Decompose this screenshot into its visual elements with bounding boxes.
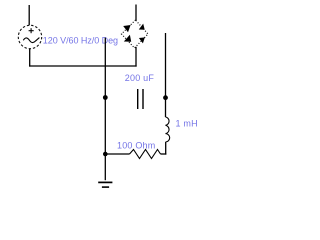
wire: right vertical run upper [165,33,167,117]
svg-text:1 mH: 1 mH [176,119,198,129]
junction node at middle wire and capacitor row [103,95,108,100]
ac voltage source V1 top lead wire [28,5,30,25]
ac voltage source V1 bottom lead wire [29,49,31,67]
svg-text:120 V/60 Hz/0 Deg: 120 V/60 Hz/0 Deg [43,35,118,45]
svg-text:200 uF: 200 uF [125,73,155,83]
inductor L1 coil [166,117,170,142]
capacitor C1 plates [137,89,144,109]
bridge rectifier top lead wire [135,5,137,21]
svg-text:100 Ohm: 100 Ohm [117,141,155,151]
wire: bottom row right segment [161,153,167,155]
wire: middle vertical run [104,38,106,154]
wire: bottom horizontal run from source to bridge [29,65,137,67]
resistor R1 zigzag [130,150,161,159]
bridge rectifier U1 (diamond with four diodes) [122,20,149,48]
wire: bottom row left segment [104,153,130,155]
bridge rectifier bottom lead wire [135,47,137,67]
junction node at middle wire and ground [103,152,108,157]
ac voltage source V1 body [18,25,41,48]
ground lead wire [104,155,106,180]
wire: right vertical run lower [165,142,167,155]
junction node at right wire and capacitor row [163,95,168,100]
ground symbol [98,182,112,187]
